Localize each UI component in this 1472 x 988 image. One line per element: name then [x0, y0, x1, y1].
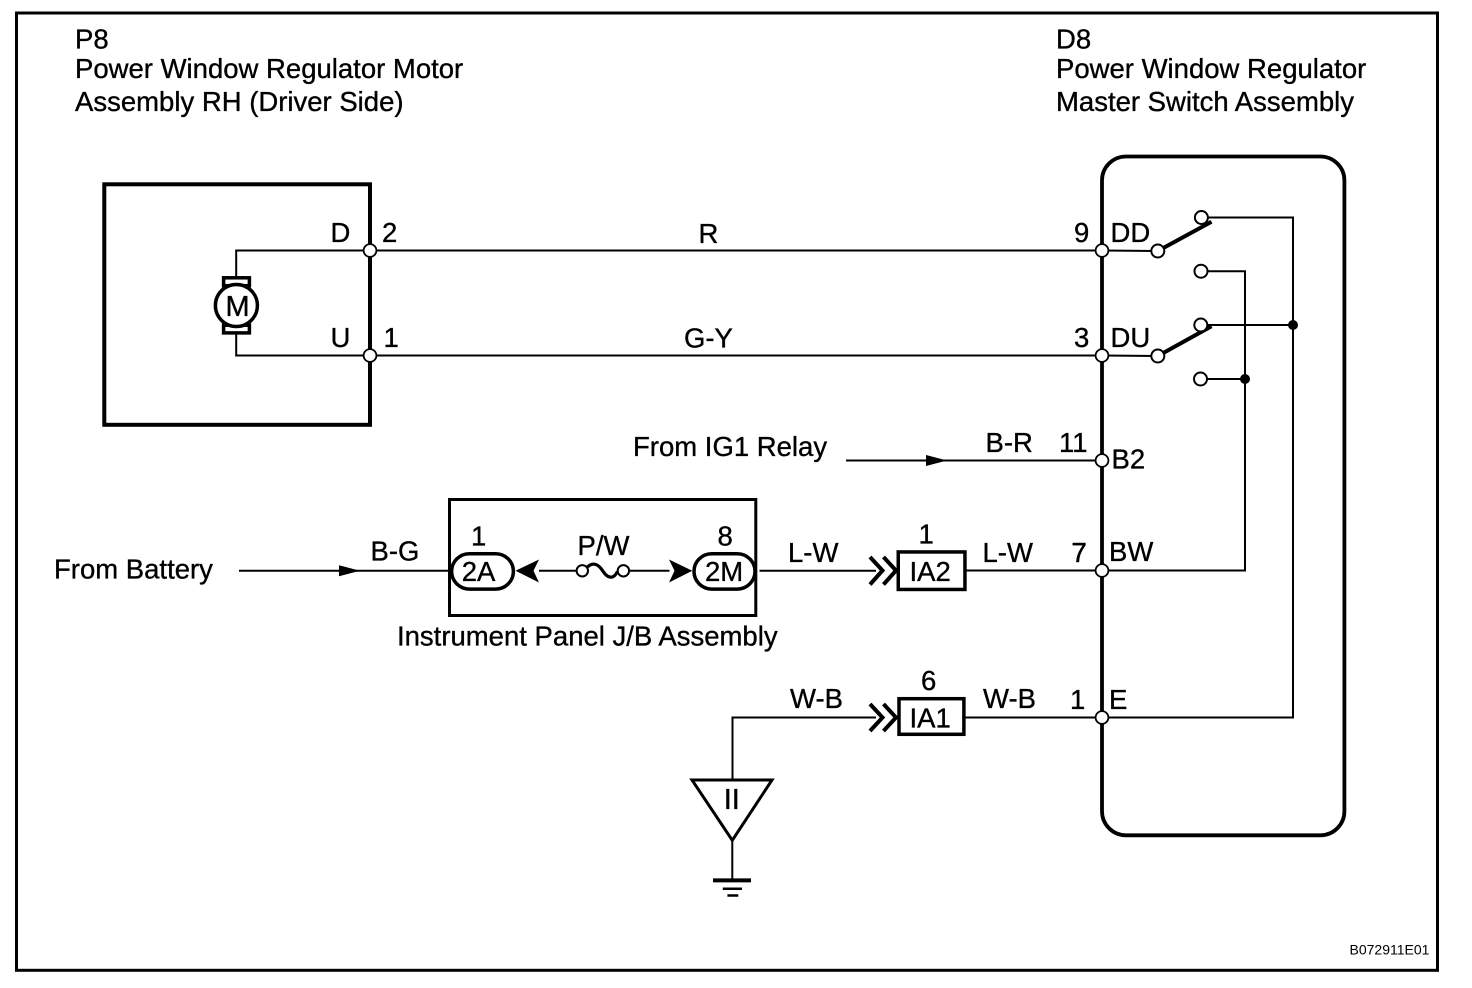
instrument panel J/B assembly box — [450, 500, 756, 616]
svg-text:7: 7 — [1072, 537, 1087, 568]
wire B-G — [239, 570, 449, 572]
connector IA1 — [899, 699, 964, 735]
pin 2 node — [364, 244, 377, 257]
wire from ground to IA1 — [733, 718, 877, 780]
pin 3 node — [1096, 349, 1109, 362]
svg-text:Instrument Panel J/B Assembly: Instrument Panel J/B Assembly — [397, 621, 778, 652]
svg-text:From Battery: From Battery — [54, 554, 213, 585]
svg-text:From IG1 Relay: From IG1 Relay — [633, 431, 827, 462]
svg-text:11: 11 — [1059, 427, 1088, 458]
master switch assembly box D8 — [1102, 157, 1344, 836]
junction dot BW bus — [1240, 374, 1250, 384]
svg-text:3: 3 — [1074, 322, 1089, 353]
svg-text:B-R: B-R — [986, 427, 1033, 458]
svg-text:W-B: W-B — [790, 683, 843, 714]
arrow on wire B-R — [926, 455, 947, 466]
wire: motor brush D to pin 2 — [236, 251, 1102, 279]
chevrons into IA1 — [870, 704, 896, 731]
svg-text:U: U — [331, 322, 351, 353]
svg-text:Power Window Regulator Motor: Power Window Regulator Motor — [75, 53, 463, 84]
switch DD contact node — [1195, 211, 1208, 224]
switch row2 contact node — [1195, 265, 1208, 278]
svg-text:P8: P8 — [75, 24, 109, 55]
wire L-W from 2M — [760, 570, 877, 572]
svg-text:E: E — [1109, 684, 1127, 715]
switch DU common node — [1151, 350, 1164, 363]
wire pin 7 to BW bus — [1102, 570, 1245, 572]
svg-text:DD: DD — [1111, 217, 1151, 248]
wire: motor brush U to pin 1 — [236, 335, 1102, 356]
pin 7 node — [1096, 564, 1109, 577]
switch DU blade — [1158, 326, 1212, 356]
pin 1 node — [364, 349, 377, 362]
motor assembly box P8 — [104, 184, 370, 424]
motor M1 brush bottom — [224, 325, 250, 333]
svg-text:9: 9 — [1074, 217, 1089, 248]
junction dot E bus — [1288, 320, 1298, 330]
svg-text:IA1: IA1 — [910, 703, 951, 734]
chevrons into IA2 — [870, 557, 896, 585]
svg-text:R: R — [699, 218, 719, 249]
wire B-R — [846, 460, 1102, 462]
fuse P/W — [577, 564, 630, 577]
wire fuse to arrowhead — [630, 570, 670, 572]
svg-text:IA2: IA2 — [910, 556, 951, 587]
svg-text:D: D — [331, 217, 351, 248]
connector IA2 — [898, 552, 965, 590]
arrow on wire B-G — [339, 565, 360, 576]
svg-text:B2: B2 — [1112, 444, 1146, 475]
bus wire E vertical — [1291, 325, 1293, 718]
switch DU contact node — [1194, 319, 1207, 332]
switch row4 contact node — [1194, 373, 1207, 386]
svg-text:P/W: P/W — [578, 530, 630, 561]
svg-text:DU: DU — [1111, 322, 1151, 353]
svg-text:W-B: W-B — [983, 683, 1036, 714]
switch DD common node — [1151, 245, 1164, 258]
motor M1 — [215, 285, 257, 327]
motor M1 brush top — [224, 278, 250, 286]
switch DD blade — [1158, 222, 1212, 251]
svg-text:L-W: L-W — [983, 537, 1033, 568]
wire: row2 contact to BW bus — [1201, 271, 1245, 379]
arrowhead into 2A — [516, 560, 540, 583]
svg-text:Master Switch Assembly: Master Switch Assembly — [1056, 86, 1354, 117]
wire: pin 3 to switch DU common — [1102, 355, 1158, 358]
ground symbol II — [692, 780, 772, 896]
svg-text:6: 6 — [921, 665, 936, 696]
svg-text:1: 1 — [384, 322, 399, 353]
bus wire BW vertical — [1243, 379, 1245, 571]
wire L-W to pin 7 — [967, 570, 1103, 572]
svg-text:II: II — [724, 784, 740, 816]
svg-text:B-G: B-G — [371, 536, 420, 567]
svg-text:2A: 2A — [462, 556, 496, 587]
wire to fuse — [539, 570, 577, 572]
wire: DD contact to E bus — [1201, 218, 1293, 326]
wire W-B to pin 1 — [966, 717, 1103, 719]
svg-text:M: M — [226, 291, 250, 323]
connector D8 header label — [1056, 24, 1366, 118]
svg-text:D8: D8 — [1056, 24, 1091, 55]
svg-text:Power Window Regulator: Power Window Regulator — [1056, 53, 1366, 84]
connector 2A — [452, 554, 514, 589]
wire: DU contact to E bus — [1201, 324, 1293, 326]
pin 1E node — [1096, 711, 1109, 724]
pin 9 node — [1096, 244, 1109, 257]
svg-text:Assembly RH (Driver Side): Assembly RH (Driver Side) — [75, 86, 404, 117]
wire: row4 contact to BW bus — [1201, 378, 1246, 380]
svg-text:1: 1 — [471, 521, 486, 552]
pin 11 node — [1096, 454, 1109, 467]
svg-text:B072911E01: B072911E01 — [1350, 942, 1430, 958]
svg-text:BW: BW — [1109, 536, 1153, 567]
connector 2M — [694, 554, 755, 589]
wire pin 1E to E bus — [1102, 717, 1293, 719]
svg-text:2M: 2M — [705, 556, 743, 587]
svg-text:8: 8 — [718, 521, 733, 552]
svg-text:G-Y: G-Y — [684, 323, 733, 354]
arrowhead into 2M — [669, 560, 692, 583]
connector P8 header label — [75, 24, 463, 118]
svg-text:L-W: L-W — [788, 537, 838, 568]
svg-text:2: 2 — [382, 217, 397, 248]
wire: pin 9 to switch DD common — [1102, 250, 1158, 253]
svg-text:1: 1 — [919, 519, 934, 550]
svg-text:1: 1 — [1070, 684, 1085, 715]
